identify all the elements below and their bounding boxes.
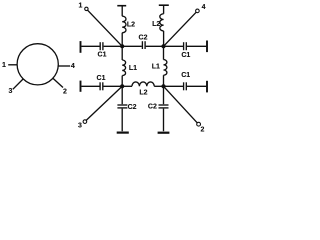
svg-text:1: 1: [79, 3, 83, 10]
svg-text:1: 1: [2, 62, 6, 69]
svg-text:2: 2: [200, 126, 204, 133]
ground bar G2 (top-right): [159, 4, 169, 6]
wire L1 to node B': [163, 75, 165, 86]
capacitor C1 (bottom-right): [184, 82, 187, 90]
svg-text:3: 3: [78, 123, 82, 130]
inductor L2 (top-right, bumps left): [160, 14, 164, 31]
svg-text:L2: L2: [152, 21, 160, 28]
pin 1 lead of T1: [8, 64, 17, 66]
wire node B' to C2: [163, 86, 165, 104]
wire L2 to node A: [121, 33, 123, 47]
pin 3 lead of T1: [13, 79, 23, 89]
wire C1 to port bar P4: [187, 45, 206, 47]
transformer T1 (4-port circle body): [17, 44, 58, 85]
inductor L2 (bottom middle, bumps up): [132, 82, 154, 86]
wire node A' to L2: [122, 85, 132, 87]
svg-text:C1: C1: [181, 72, 190, 79]
node B junction dot: [161, 44, 165, 48]
svg-text:C1: C1: [181, 52, 190, 59]
inductor L1 (left, bumps right): [122, 60, 125, 76]
svg-text:2: 2: [63, 89, 67, 96]
wire node B' to C1 right: [164, 85, 184, 87]
terminal 3 diagonal wire: [86, 86, 122, 120]
capacitor C1 (bottom-left): [100, 82, 103, 90]
svg-text:C2: C2: [128, 104, 137, 111]
pin 4 lead of T1: [58, 65, 70, 67]
wire node B to L1: [163, 46, 165, 59]
wire C2 to ground G4: [163, 109, 165, 132]
terminal 1 diagonal wire: [88, 10, 123, 46]
wire C2 to ground G3: [121, 109, 123, 132]
port bar P3 (bottom-left terminal): [80, 81, 82, 92]
ground bar G3 (bottom-left): [117, 132, 129, 134]
capacitor C1 (top-right): [184, 42, 187, 50]
capacitor C2 (top middle): [142, 41, 145, 49]
terminal 4 circle: [196, 9, 200, 13]
terminal 1 circle: [85, 7, 88, 10]
svg-text:C2: C2: [139, 34, 148, 41]
wire L2 to node B': [154, 85, 163, 87]
capacitor C1 (top-left): [100, 42, 103, 50]
terminal 2 diagonal wire: [164, 86, 198, 123]
wire G1 to L2: [121, 6, 123, 16]
wire C1 to node A': [103, 85, 122, 87]
svg-text:3: 3: [9, 88, 13, 95]
pin 2 lead of T1: [53, 78, 63, 87]
wire node A to C2: [122, 45, 142, 47]
wire C1 to port bar P2: [187, 85, 206, 87]
port bar P4 (top-right terminal): [206, 41, 208, 53]
node A' junction dot: [120, 84, 124, 88]
wire C1 to node A: [104, 45, 123, 47]
wire P3 to C1: [81, 85, 99, 87]
ground bar G1 (top-left): [117, 5, 126, 7]
wire node A to L1: [121, 46, 123, 60]
wire node B to C1 right: [164, 45, 184, 47]
svg-text:4: 4: [71, 63, 75, 70]
wire node A' to C2: [121, 86, 123, 104]
svg-text:C1: C1: [97, 75, 106, 82]
wire P1 to C1: [81, 45, 99, 47]
terminal 3 circle: [83, 120, 87, 124]
wire L2 to node B: [163, 31, 165, 46]
inductor L1 (right, bumps right): [164, 60, 167, 76]
capacitor C2 (bottom-right, horizontal plates): [159, 105, 169, 108]
capacitor C2 (bottom-left, horizontal plates): [117, 105, 127, 108]
node A junction dot: [120, 44, 124, 48]
svg-text:L1: L1: [152, 64, 160, 71]
ground bar G4 (bottom-right): [158, 132, 170, 134]
wire G2 to L2: [163, 6, 165, 14]
node B' junction dot: [161, 84, 165, 88]
svg-text:L2: L2: [139, 90, 147, 97]
port bar P2 (bottom-right terminal): [206, 81, 208, 93]
svg-text:C2: C2: [148, 103, 157, 110]
svg-text:L1: L1: [129, 65, 137, 72]
terminal 2 circle: [197, 122, 201, 126]
terminal 4 diagonal wire: [164, 12, 197, 46]
svg-text:L2: L2: [127, 22, 135, 29]
inductor L2 (top-left, bumps right): [122, 16, 126, 33]
port bar P1 (top-left terminal): [80, 41, 82, 53]
wire L1 to node A': [121, 76, 123, 87]
svg-text:C1: C1: [98, 52, 107, 59]
wire C2 to node B: [146, 45, 164, 47]
svg-text:4: 4: [202, 4, 206, 11]
